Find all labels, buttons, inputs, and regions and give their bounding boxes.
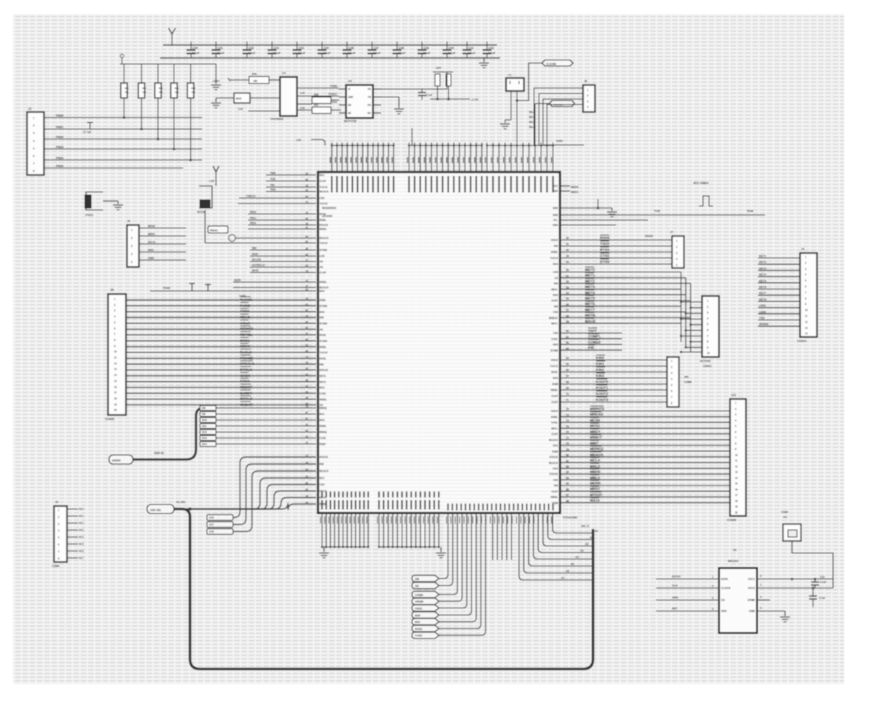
- op-amp U3 bottom pin stub group3: [530, 504, 532, 511]
- svg-text:80: 80: [566, 453, 569, 457]
- wire net MED0: [560, 185, 570, 187]
- wire net KEY4 to J2: [758, 276, 800, 278]
- wire net +1.5V: [430, 98, 470, 100]
- op-amp U3 top pin stub: [430, 143, 432, 173]
- svg-text:DBEN: DBEN: [240, 345, 251, 349]
- svg-text:U5: U5: [733, 548, 737, 552]
- svg-text:10K: 10K: [253, 80, 258, 83]
- svg-text:MRST: MRST: [590, 487, 601, 491]
- svg-text:MWAIT: MWAIT: [590, 436, 603, 440]
- svg-text:CTS0: CTS0: [600, 254, 609, 258]
- wire bottom group3 middle stub: [510, 513, 512, 560]
- svg-text:0.1uF: 0.1uF: [217, 51, 225, 55]
- op-amp U3 bottom pin stub group3: [469, 504, 471, 511]
- svg-text:SOT23: SOT23: [197, 211, 205, 214]
- svg-text:43: 43: [566, 254, 569, 258]
- wire net SCLK0: [250, 261, 316, 263]
- wire net MOSI: [139, 227, 186, 229]
- svg-text:VI: VI: [348, 89, 351, 91]
- svg-text:JP5: JP5: [684, 375, 689, 379]
- svg-text:C40: C40: [449, 46, 455, 50]
- op-amp U3 bottom pin stub group3: [478, 504, 480, 511]
- wire net PBB4: [44, 159, 202, 161]
- svg-text:SYSIN: SYSIN: [320, 323, 328, 326]
- wire to J8 pin 1: [681, 301, 702, 303]
- svg-text:0.1uF: 0.1uF: [398, 51, 406, 55]
- wire top decoupling rail: [163, 44, 497, 46]
- op-amp U3 top pin stub: [419, 143, 421, 173]
- svg-text:CLKF: CLKF: [551, 300, 558, 303]
- boxed label D11: [200, 423, 216, 428]
- svg-text:TxCLK: TxCLK: [320, 352, 328, 355]
- wire net AD0 bundle: [186, 478, 316, 509]
- op-amp U3 top pin stub: [367, 143, 369, 173]
- svg-text:AS: AS: [320, 266, 324, 269]
- svg-text:CS0: CS0: [553, 311, 558, 314]
- svg-text:R10: R10: [314, 94, 319, 97]
- svg-text:COM20: COM20: [588, 340, 600, 344]
- svg-text:KIN2: KIN2: [596, 368, 604, 372]
- wire rail under bottom group2: [379, 546, 439, 548]
- svg-text:CLKF: CLKF: [551, 401, 558, 404]
- svg-text:CON14: CON14: [797, 339, 807, 343]
- wire to J8 pin 3: [686, 312, 702, 314]
- op-amp U3 bottom pin stub group1: [367, 513, 369, 547]
- svg-text:2.4V: 2.4V: [300, 92, 305, 95]
- svg-text:RW: RW: [320, 317, 325, 320]
- op-amp U3 top pin stub: [362, 143, 364, 173]
- svg-text:ACLK: ACLK: [240, 321, 250, 325]
- op-amp U3 bottom pin stub group1: [325, 513, 327, 547]
- svg-text:74: 74: [566, 419, 569, 423]
- node small circle: [120, 54, 124, 58]
- svg-text:PBB4: PBB4: [56, 156, 64, 160]
- op-amp U3 bottom pin stub group3: [451, 504, 453, 511]
- svg-text:BA0: BA0: [553, 263, 559, 266]
- svg-text:DRD1: DRD1: [240, 339, 250, 343]
- ground at Q1: [103, 200, 118, 202]
- svg-text:A0..SEL: A0..SEL: [176, 500, 186, 504]
- svg-text:D9: D9: [202, 412, 206, 416]
- resistor R11: [312, 107, 331, 114]
- svg-text:BREQ: BREQ: [320, 407, 327, 410]
- wire net MCS1 to J10: [560, 427, 730, 429]
- op-amp U3 bottom pin stub group3: [495, 504, 497, 511]
- svg-text:C39: C39: [424, 46, 430, 50]
- svg-text:MTEST: MTEST: [590, 493, 603, 497]
- svg-text:uCLKDIV: uCLKDIV: [322, 215, 333, 218]
- op-amp U3 top pin stub: [475, 143, 477, 173]
- op-amp U2 MCP lowdrop: [346, 85, 373, 118]
- svg-text:75: 75: [566, 424, 569, 428]
- wire net KOUT3 to J9: [560, 401, 667, 403]
- svg-text:J5: J5: [55, 500, 59, 504]
- svg-text:DTACK: DTACK: [549, 456, 558, 459]
- wire net MISO: [139, 235, 186, 237]
- svg-text:DTACK: DTACK: [320, 369, 329, 372]
- wire net KEY5 to J2: [758, 282, 800, 284]
- capacitor C36 0.1uF: [346, 42, 348, 51]
- op-amp U3 top pin stub: [336, 143, 338, 173]
- wire MDT2 elbow to J8 bus: [628, 282, 691, 284]
- connector J5: [54, 506, 67, 562]
- wire net AD3 bundle: [186, 498, 316, 510]
- wire net DTR0 to J7: [560, 263, 672, 265]
- wire net PBB2: [44, 138, 202, 140]
- wire net DDWE0: [126, 328, 316, 330]
- svg-text:0.1uF: 0.1uF: [298, 51, 306, 55]
- svg-text:DQM: DQM: [552, 502, 558, 505]
- wire bottom decoupling rail: [160, 57, 500, 59]
- capacitor C42 0.1uF: [486, 42, 488, 51]
- wire net MDT4: [560, 294, 628, 296]
- wire net MWAIT to J10: [560, 439, 730, 441]
- svg-text:D11: D11: [202, 424, 207, 428]
- op-amp U3 top pin stub: [408, 143, 410, 173]
- svg-text:MREAD: MREAD: [590, 413, 604, 417]
- svg-text:BR1225: BR1225: [728, 559, 739, 563]
- svg-text:73: 73: [566, 413, 569, 417]
- svg-text:MRDY: MRDY: [590, 430, 601, 434]
- wire rail above top pin group 2: [409, 145, 482, 147]
- op-amp U3 bottom pin stub group3: [460, 504, 462, 511]
- svg-text:BGACK: BGACK: [320, 470, 329, 473]
- svg-text:59: 59: [566, 320, 569, 324]
- wire net GND: [139, 259, 186, 261]
- svg-text:A[0..7]: A[0..7]: [581, 524, 589, 528]
- wire net A17 to U3: [233, 464, 316, 525]
- net label OE arrow: [412, 582, 439, 588]
- wire MACK elbow to J8 bus: [628, 322, 681, 324]
- svg-text:BA0: BA0: [553, 294, 559, 297]
- wire net DTCLK: [126, 369, 316, 371]
- svg-text:BGACK: BGACK: [320, 191, 329, 194]
- svg-text:CAS2: CAS2: [415, 634, 423, 638]
- svg-text:SEL3: SEL3: [529, 126, 536, 129]
- wire J6 pin 1: [534, 88, 583, 146]
- svg-text:SID: SID: [252, 246, 257, 250]
- svg-text:61: 61: [566, 335, 569, 339]
- op-amp U3 bottom pin stub group3: [526, 504, 528, 511]
- svg-text:BGACK: BGACK: [549, 462, 558, 465]
- op-amp U2 pin 3: [339, 104, 346, 106]
- svg-text:DQM: DQM: [320, 299, 326, 302]
- wire net COMPL: [560, 338, 622, 340]
- svg-text:0.1uF: 0.1uF: [426, 94, 433, 97]
- connector J1: [27, 112, 44, 175]
- svg-text:DDWE0: DDWE0: [240, 327, 253, 331]
- svg-text:LDS: LDS: [320, 255, 325, 258]
- wire J6 pin 2: [539, 94, 583, 146]
- power rail VCC symbol: [169, 28, 173, 34]
- svg-text:KEYPAD: KEYPAD: [700, 359, 711, 363]
- wire net RXD0 to J7: [560, 239, 672, 241]
- net label WE arrow: [412, 575, 439, 581]
- wire from open circle to U3: [235, 237, 316, 239]
- svg-text:WEBL: WEBL: [320, 398, 328, 401]
- wire net GATECLK: [250, 266, 316, 268]
- svg-text:A18: A18: [209, 530, 214, 534]
- wire net LDQM elbow: [439, 513, 457, 595]
- svg-text:KEY6: KEY6: [759, 285, 767, 289]
- svg-text:J1: J1: [28, 107, 32, 111]
- wire net RST to U5: [656, 610, 719, 612]
- svg-text:TRDY: TRDY: [240, 380, 250, 384]
- svg-text:TVDD: TVDD: [330, 84, 337, 88]
- wire U1 out3: [297, 103, 312, 105]
- wire net MCLK to J10: [560, 462, 730, 464]
- svg-text:64: 64: [566, 356, 569, 360]
- svg-text:UDS: UDS: [553, 344, 559, 347]
- svg-text:BGACK: BGACK: [320, 237, 329, 240]
- op-amp U2 pin 4: [339, 112, 346, 114]
- svg-text:NC: NC: [368, 113, 372, 115]
- op-amp U3 bottom pin stub group3: [500, 504, 502, 511]
- svg-text:LED2: LED2: [759, 310, 767, 314]
- svg-text:CLK: CLK: [672, 584, 678, 588]
- op-amp U3 top pin stub: [341, 143, 343, 173]
- svg-text:BS0: BS0: [415, 613, 421, 617]
- wire net AD4 bundle: [186, 503, 316, 510]
- wire net KOUT1 to J9: [560, 389, 667, 391]
- op-amp U3 bottom pin stub group3: [482, 504, 484, 511]
- wire to J8 pin 7: [681, 335, 702, 337]
- wire net KEY1 to J2: [758, 257, 800, 259]
- svg-text:66: 66: [566, 368, 569, 372]
- svg-text:NC3: NC3: [79, 530, 84, 532]
- svg-text:MALE: MALE: [590, 464, 601, 468]
- svg-text:44: 44: [566, 260, 569, 264]
- svg-text:79: 79: [566, 447, 569, 451]
- svg-text:0.1uF: 0.1uF: [348, 51, 356, 55]
- svg-text:RXD0: RXD0: [600, 236, 610, 240]
- svg-text:CASL: CASL: [320, 437, 327, 440]
- svg-text:D13: D13: [202, 436, 207, 440]
- svg-text:RW: RW: [320, 463, 325, 466]
- svg-text:CASL: CASL: [551, 422, 558, 425]
- svg-text:0.1uF: 0.1uF: [323, 51, 331, 55]
- wire net BS0 elbow: [439, 513, 472, 615]
- svg-text:SxRDY: SxRDY: [240, 391, 253, 395]
- wire net GND to U5: [656, 599, 719, 601]
- svg-text:RDYBL: RDYBL: [240, 333, 253, 337]
- wire net KIN3 to J9: [560, 377, 667, 379]
- wire to J8 pin 4: [681, 318, 702, 320]
- svg-text:CLKF: CLKF: [551, 433, 558, 436]
- svg-text:NC4: NC4: [79, 536, 84, 539]
- op-amp U3 bottom pin stub group3: [465, 504, 467, 511]
- op-amp U3 top pin stub: [481, 143, 483, 173]
- bus vertical 3 left of J8: [690, 283, 692, 352]
- svg-text:C41: C41: [469, 46, 475, 50]
- svg-text:RASL: RASL: [320, 358, 327, 361]
- svg-text:0.1uF: 0.1uF: [820, 581, 827, 584]
- connector J9: [667, 357, 679, 407]
- svg-text:LDS: LDS: [553, 271, 558, 274]
- svg-text:81: 81: [566, 459, 569, 463]
- svg-text:AS: AS: [320, 328, 324, 331]
- svg-text:MOSI: MOSI: [148, 224, 155, 228]
- svg-text:MAX: MAX: [236, 98, 242, 101]
- svg-text:COM8: COM8: [684, 380, 692, 384]
- boxed label D13: [200, 435, 216, 440]
- op-amp U3 bottom pin stub group1: [338, 513, 340, 547]
- svg-text:GND: GND: [553, 207, 559, 210]
- svg-text:PG: PG: [368, 105, 372, 107]
- wire net KOUT2 to J9: [560, 395, 667, 397]
- op-amp U3 bottom pin stub group3: [491, 504, 493, 511]
- wire net KEY3 to J2: [758, 269, 800, 271]
- op-amp U3 bottom pin stub group1: [342, 513, 344, 547]
- op-amp U3 top pin stub: [357, 143, 359, 173]
- wire Y1 pin1: [510, 91, 512, 120]
- op-amp U3 bottom pin stub group2: [392, 513, 394, 547]
- wire net FRAME: [126, 357, 316, 359]
- op-amp U3 bottom pin stub group2: [415, 513, 417, 547]
- svg-text:10K: 10K: [125, 92, 129, 94]
- wire MDT0 elbow to J8 bus: [628, 271, 681, 273]
- wire net MRST to J10: [560, 490, 730, 492]
- svg-text:TRB0: TRB0: [240, 310, 249, 314]
- svg-text:KEY8: KEY8: [759, 297, 767, 301]
- wire J6 pin 3: [543, 99, 583, 146]
- op-amp U3 bottom pin stub group1: [350, 513, 352, 547]
- op-amp U3 bottom pin stub group2: [438, 513, 440, 547]
- svg-text:INTR: INTR: [252, 269, 258, 273]
- svg-text:VCC: VCC: [553, 185, 558, 188]
- svg-text:MERR: MERR: [590, 481, 601, 485]
- wire net D12: [216, 431, 316, 433]
- svg-text:J11: J11: [783, 515, 788, 519]
- svg-text:50: 50: [566, 268, 569, 272]
- capacitor C33 0.1uF: [271, 42, 273, 51]
- svg-text:CLKF: CLKF: [320, 180, 327, 183]
- op-amp U3 bottom pin stub group2: [433, 513, 435, 547]
- wire to J8 pin 10: [681, 351, 702, 353]
- wire net A18 to U3: [233, 471, 316, 532]
- svg-text:BGACK: BGACK: [549, 439, 558, 442]
- wire net MDT3: [560, 288, 628, 290]
- wire net CKE2 elbow: [439, 513, 467, 608]
- wire bottom group3 middle stub: [496, 513, 498, 560]
- svg-text:CLKF: CLKF: [320, 272, 327, 275]
- net label BS0 arrow: [412, 612, 439, 618]
- svg-text:62: 62: [566, 341, 569, 345]
- svg-text:52: 52: [566, 280, 569, 284]
- svg-text:67: 67: [566, 374, 569, 378]
- resistor R22 10K: [157, 64, 159, 83]
- svg-text:ADD SEL: ADD SEL: [150, 508, 162, 512]
- svg-text:RDYL: RDYL: [551, 323, 558, 326]
- net label SDR50 oval: [109, 455, 133, 464]
- op-amp U3 top pin stub: [442, 143, 444, 173]
- svg-text:MED1: MED1: [571, 190, 579, 194]
- wire U5 pin7: [757, 587, 833, 589]
- op-amp U3 top pin stub: [528, 143, 530, 173]
- svg-text:LDQM: LDQM: [415, 593, 424, 597]
- net label LDQM arrow: [412, 591, 439, 597]
- svg-text:COMPL: COMPL: [588, 335, 602, 339]
- op-amp U3 bottom pin stub group2: [406, 513, 408, 547]
- svg-text:RAS2: RAS2: [415, 627, 423, 631]
- svg-text:RW: RW: [554, 485, 559, 488]
- svg-text:CKE: CKE: [553, 468, 559, 471]
- wire MDT4 elbow to J8 bus: [628, 294, 686, 296]
- svg-text:NC: NC: [348, 113, 352, 115]
- wire net INTR: [250, 272, 316, 274]
- connector J5 pin 8 stub: [67, 557, 78, 559]
- wire net MDT2: [560, 282, 628, 284]
- svg-text:4.7uF: 4.7uF: [819, 597, 826, 600]
- wire net CLKI: [560, 224, 616, 226]
- svg-text:57: 57: [566, 308, 569, 312]
- resistor R49: [230, 79, 249, 81]
- svg-text:D14: D14: [202, 442, 207, 446]
- wire net MA16 to J10: [560, 502, 730, 504]
- svg-text:55: 55: [566, 297, 569, 301]
- wire to J8 pin 6: [686, 329, 702, 331]
- wire net AD2 bundle: [186, 491, 316, 509]
- wire net TRB0: [126, 311, 316, 313]
- wire net A16 to U3: [233, 457, 316, 518]
- svg-text:GND: GND: [553, 224, 559, 227]
- svg-text:PIR: PIR: [588, 346, 594, 350]
- svg-text:GND: GND: [749, 609, 755, 613]
- wire net PU06 with pull-ups: [150, 290, 316, 292]
- svg-text:82: 82: [566, 465, 569, 469]
- svg-text:1.8V: 1.8V: [209, 179, 215, 183]
- svg-text:TxCLK: TxCLK: [320, 186, 328, 189]
- wire feed group2 rail: [411, 128, 413, 146]
- svg-text:VCC2: VCC2: [748, 586, 756, 590]
- svg-text:0.1uF: 0.1uF: [192, 51, 200, 55]
- svg-text:VDD: VDD: [721, 609, 727, 613]
- svg-text:10K: 10K: [142, 92, 146, 94]
- svg-text:HOLD: HOLD: [551, 239, 558, 242]
- connector J6: [583, 85, 595, 112]
- op-amp U3 top pin stub: [387, 143, 389, 173]
- wire net A0 elbow to bus: [553, 513, 593, 533]
- svg-text:KEY1: KEY1: [759, 254, 767, 258]
- svg-text:CON20: CON20: [727, 518, 737, 522]
- svg-text:SYSIN: SYSIN: [320, 340, 328, 343]
- svg-text:WxDAT: WxDAT: [240, 403, 253, 407]
- wire net MDT7: [560, 311, 628, 313]
- wire net SxD1: [233, 287, 316, 289]
- svg-text:CON2: CON2: [781, 510, 789, 514]
- svg-text:BA1: BA1: [320, 477, 326, 480]
- wire net WxDAT: [126, 404, 316, 406]
- op-amp U3 bottom pin stub group3: [504, 504, 506, 511]
- node open-circle net stub: [229, 235, 236, 242]
- wire net TAPE: [544, 144, 584, 146]
- svg-text:ATMD: ATMD: [747, 598, 755, 602]
- svg-text:A7: A7: [561, 576, 565, 580]
- svg-text:72: 72: [566, 407, 569, 411]
- svg-text:DTACK: DTACK: [320, 456, 329, 459]
- svg-text:TXRCO: TXRCO: [246, 194, 255, 198]
- op-amp U3 top pin stub: [382, 143, 384, 173]
- svg-text:RDYL: RDYL: [551, 427, 558, 430]
- op-amp U3 top pin stub: [377, 143, 379, 173]
- svg-text:MISO: MISO: [148, 232, 155, 236]
- wire MSTB elbow to J8 bus: [628, 317, 691, 319]
- wire to J8 pin 8: [691, 341, 702, 343]
- net label RAS2 arrow: [412, 625, 439, 631]
- op-amp U3 bottom pin stub group2: [378, 513, 380, 547]
- svg-text:SEL1: SEL1: [529, 116, 536, 119]
- svg-text:VO: VO: [368, 89, 372, 91]
